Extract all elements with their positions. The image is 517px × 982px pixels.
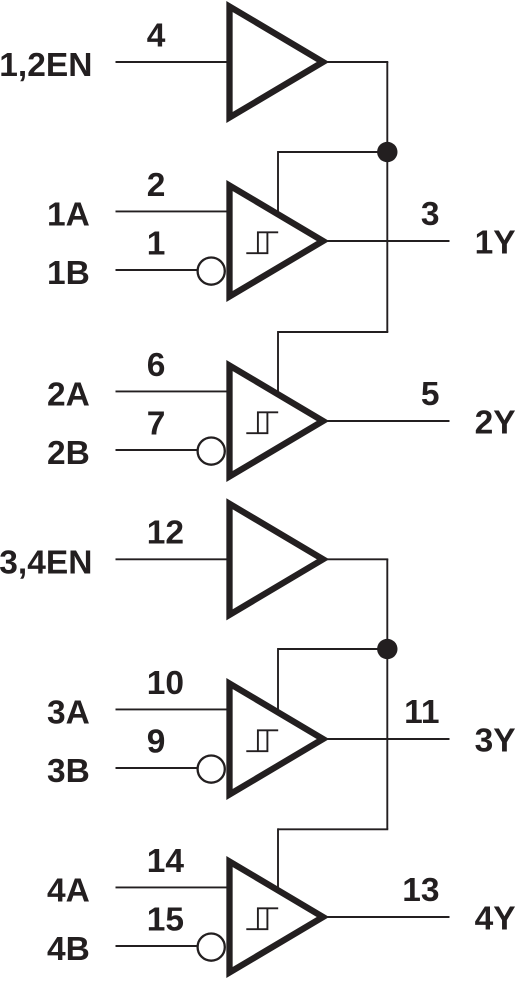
svg-text:1: 1: [147, 225, 166, 262]
svg-text:3,4EN: 3,4EN: [0, 544, 92, 581]
svg-text:4: 4: [147, 17, 166, 54]
svg-text:3A: 3A: [47, 694, 90, 731]
svg-text:10: 10: [147, 665, 184, 702]
svg-text:2A: 2A: [47, 376, 90, 413]
svg-text:4B: 4B: [47, 931, 90, 968]
svg-text:15: 15: [147, 901, 184, 938]
svg-text:14: 14: [147, 843, 185, 880]
svg-text:4A: 4A: [47, 872, 90, 909]
svg-text:1,2EN: 1,2EN: [0, 47, 92, 84]
svg-text:1A: 1A: [47, 196, 90, 233]
svg-text:3: 3: [421, 196, 440, 233]
svg-text:2Y: 2Y: [475, 405, 516, 442]
svg-text:1Y: 1Y: [475, 225, 516, 262]
svg-text:6: 6: [147, 347, 166, 384]
svg-text:3B: 3B: [47, 753, 90, 790]
svg-text:2: 2: [147, 167, 166, 204]
svg-text:7: 7: [147, 405, 166, 442]
svg-text:1B: 1B: [47, 255, 90, 292]
svg-text:5: 5: [421, 376, 440, 413]
svg-text:12: 12: [147, 515, 184, 552]
svg-text:4Y: 4Y: [475, 901, 516, 938]
svg-text:13: 13: [402, 872, 439, 909]
svg-text:9: 9: [147, 723, 166, 760]
svg-text:3Y: 3Y: [475, 723, 516, 760]
svg-text:2B: 2B: [47, 435, 90, 472]
svg-text:11: 11: [404, 694, 439, 731]
